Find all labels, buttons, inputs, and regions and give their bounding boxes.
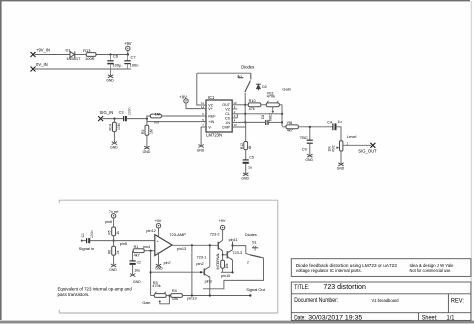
ground below C9 xyxy=(307,153,312,157)
svg-text:pin11: pin11 xyxy=(229,238,238,242)
svg-text:pin6: pin6 xyxy=(105,220,112,224)
svg-text:R5: R5 xyxy=(108,230,112,234)
capacitor C4 1u xyxy=(333,123,336,130)
svg-text:723-1: 723-1 xyxy=(197,256,207,260)
svg-text:IC1: IC1 xyxy=(208,95,215,100)
svg-text:SIG_IN: SIG_IN xyxy=(100,110,114,115)
divider title/doc xyxy=(291,293,471,295)
junction node +9V rail xyxy=(109,53,111,55)
svg-text:4k: 4k xyxy=(248,145,252,149)
wiper TBC2 xyxy=(272,107,274,112)
rail pin10 xyxy=(221,271,233,273)
svg-text:pass transistors.: pass transistors. xyxy=(58,292,90,297)
ground below C5 xyxy=(243,172,248,176)
node -IN wire xyxy=(244,121,246,123)
comment box xyxy=(291,259,471,277)
svg-text:+9V: +9V xyxy=(219,219,226,223)
pin OUT stub xyxy=(232,104,237,106)
node CL wire xyxy=(244,113,246,115)
svg-text:10k: 10k xyxy=(172,297,178,301)
svg-text:LM723N: LM723N xyxy=(206,133,222,138)
resistor R5 xyxy=(112,227,116,236)
svg-text:1/1: 1/1 xyxy=(447,315,456,322)
connector pin SIG_IN xyxy=(98,116,103,121)
svg-text:C7: C7 xyxy=(131,54,137,59)
svg-text:C8: C8 xyxy=(261,115,265,119)
svg-text:GND: GND xyxy=(106,79,114,83)
wire C1 to op-amp xyxy=(90,240,155,242)
wire C8 to node B xyxy=(269,121,283,123)
pin V+ stub xyxy=(201,108,206,110)
svg-text:2: 2 xyxy=(247,261,249,265)
svg-text:10M: 10M xyxy=(117,123,121,130)
svg-text:Signal Out: Signal Out xyxy=(246,287,266,292)
7v ref node xyxy=(111,214,115,218)
node Signal Out xyxy=(249,294,251,296)
ground below C6 xyxy=(110,69,112,74)
wiper loop R3 xyxy=(159,300,161,302)
ground below Level xyxy=(338,162,343,166)
svg-text:+9V: +9V xyxy=(179,94,187,99)
svg-text:Signal in: Signal in xyxy=(79,246,94,251)
wire switch to OUT node xyxy=(244,93,246,122)
node C9 tap xyxy=(309,126,311,128)
node OUT xyxy=(244,104,246,106)
svg-text:0V_IN: 0V_IN xyxy=(36,62,48,67)
svg-text:INTERNAL: INTERNAL xyxy=(216,253,220,270)
svg-text:pin13: pin13 xyxy=(177,247,186,251)
wire pot to gnd xyxy=(340,151,342,162)
window border top xyxy=(0,0,470,1)
box right edge xyxy=(277,200,279,313)
window bottom band xyxy=(0,321,474,324)
node +9V corner xyxy=(127,53,129,55)
svg-text:723 distortion: 723 distortion xyxy=(323,284,366,291)
svg-text:Date:: Date: xyxy=(294,315,306,322)
wire VC feed vertical xyxy=(197,73,201,105)
pin CL stub xyxy=(232,113,237,115)
svg-text:1M: 1M xyxy=(149,129,153,134)
svg-text:Not for commercial use.: Not for commercial use. xyxy=(410,268,452,273)
svg-text:100µ: 100µ xyxy=(112,63,122,68)
svg-text:13: 13 xyxy=(233,123,237,127)
pin V- stub xyxy=(201,126,206,128)
wire -IN row to C8 xyxy=(237,121,265,123)
svg-text:470k: 470k xyxy=(152,284,160,288)
pin -IN stub xyxy=(232,121,237,123)
node B vertical xyxy=(281,105,283,126)
svg-text:7v ref: 7v ref xyxy=(109,210,119,214)
wire 723-1 emitter down to rail xyxy=(209,277,211,295)
svg-text:Equivalent of 723 internal op-: Equivalent of 723 internal op-amp and xyxy=(58,287,133,292)
svg-text:D2: D2 xyxy=(262,85,267,89)
svg-text:+9V: +9V xyxy=(154,219,161,223)
op-amp gnd stub xyxy=(158,253,160,264)
box bottom edge xyxy=(59,312,278,314)
wire R3 to R4 xyxy=(166,295,171,297)
wire R1 to op-amp xyxy=(144,250,155,252)
wire 723-3 collector pin11 xyxy=(232,241,234,249)
svg-text:C3: C3 xyxy=(119,111,124,115)
svg-text:pin10: pin10 xyxy=(221,274,230,278)
capacitor C3 100n xyxy=(124,116,126,121)
potentiometer Level xyxy=(340,141,343,151)
svg-text:723-2: 723-2 xyxy=(210,233,220,237)
wire R9 to REF pin xyxy=(161,115,201,117)
divider REV xyxy=(447,294,449,313)
potentiometer R3 470k Gain xyxy=(154,294,166,298)
svg-text:R14: R14 xyxy=(108,124,112,130)
wire R12 to C5 xyxy=(245,150,247,160)
svg-text:Diode feedback distortion usin: Diode feedback distortion using LM723 or… xyxy=(296,263,398,268)
box top edge xyxy=(59,199,278,201)
op-amp 723-AMP xyxy=(155,235,172,256)
svg-text:S1: S1 xyxy=(252,240,257,244)
resistor R10 47k xyxy=(248,103,260,107)
svg-text:C4: C4 xyxy=(327,121,332,125)
wire C4 to level pot xyxy=(336,127,341,141)
svg-text:100R: 100R xyxy=(85,56,95,61)
svg-text:1M: 1M xyxy=(155,112,160,116)
svg-text:1k: 1k xyxy=(116,231,120,235)
capacitor C1 100n xyxy=(81,240,83,242)
switch S2 xyxy=(238,73,251,92)
power +9V at IC xyxy=(184,99,188,103)
svg-text:Level: Level xyxy=(347,134,357,139)
power +9V xyxy=(126,46,130,50)
svg-text:Sheet:: Sheet: xyxy=(422,315,438,322)
title block outer xyxy=(291,282,471,320)
svg-text:-IN: -IN xyxy=(225,121,230,125)
svg-text:1N5817: 1N5817 xyxy=(66,56,81,61)
wire C5 to gnd xyxy=(245,163,247,172)
node at R2 xyxy=(146,118,148,120)
capacitor C9 TBC xyxy=(309,127,311,140)
wire OUT to R10 xyxy=(237,104,248,106)
divider Sheet xyxy=(418,313,420,321)
connector pin 0V_IN xyxy=(31,67,36,72)
wire C3 to junction xyxy=(126,118,146,120)
pin CMP stub xyxy=(232,126,246,128)
svg-text:Gain: Gain xyxy=(142,301,150,305)
svg-text:REV:: REV: xyxy=(451,299,464,305)
svg-text:1u: 1u xyxy=(337,120,341,124)
svg-text:+9V: +9V xyxy=(124,41,132,46)
wire CL row xyxy=(236,114,238,118)
svg-text:C6: C6 xyxy=(113,54,119,59)
svg-text:470k: 470k xyxy=(267,95,275,99)
svg-text:Diodes: Diodes xyxy=(245,233,257,237)
svg-text:100n: 100n xyxy=(130,63,139,68)
wire D1 to R13 xyxy=(75,54,86,56)
wire +9V to V+ xyxy=(186,103,201,109)
svg-text:R4: R4 xyxy=(172,289,177,293)
svg-text:V1 breadboard: V1 breadboard xyxy=(372,298,400,303)
svg-text:+9V_IN: +9V_IN xyxy=(36,48,50,53)
svg-text:VZ: VZ xyxy=(225,107,230,111)
ground below R6 xyxy=(111,263,116,267)
svg-text:723-AMP: 723-AMP xyxy=(169,232,186,237)
svg-text:GND: GND xyxy=(110,145,118,149)
wire node B to R8 xyxy=(282,126,286,128)
box left corner stubs xyxy=(58,200,60,203)
capacitor C5 1u xyxy=(243,160,249,163)
wire 723-3 emitter xyxy=(232,260,234,273)
svg-text:47k: 47k xyxy=(249,107,255,111)
ground below op-amp xyxy=(156,263,161,267)
resistor R12 xyxy=(244,142,248,150)
svg-text:Idea & design J W Yale: Idea & design J W Yale xyxy=(410,263,455,268)
resistor R2 1M xyxy=(146,119,148,126)
svg-text:GND: GND xyxy=(305,158,313,162)
svg-text:CS: CS xyxy=(225,116,231,120)
svg-text:GND: GND xyxy=(155,266,163,270)
ground below V- xyxy=(200,127,202,144)
capacitor C7 100n xyxy=(124,55,130,70)
power +9V at op-amp xyxy=(156,224,160,228)
svg-text:R10: R10 xyxy=(249,99,256,103)
svg-text:R6: R6 xyxy=(108,250,112,254)
wire 723-2 emitter down xyxy=(222,251,224,260)
svg-text:30/03/2017 19:35: 30/03/2017 19:35 xyxy=(308,315,362,322)
svg-text:R13: R13 xyxy=(83,48,91,53)
rail pin13 bottom xyxy=(182,295,250,297)
svg-text:R2: R2 xyxy=(141,130,145,134)
svg-text:TITLE:: TITLE: xyxy=(294,284,309,291)
wire pin2 base rail xyxy=(151,271,205,273)
svg-text:pin12: pin12 xyxy=(146,229,155,233)
wire top rail to switch xyxy=(197,72,251,74)
ground below R14 xyxy=(112,141,117,145)
node input divider xyxy=(113,240,115,242)
wire -IN node down xyxy=(245,122,247,141)
node at R14 xyxy=(113,118,115,120)
svg-text:RV2: RV2 xyxy=(331,145,335,151)
connector pin SIG_OUT xyxy=(370,143,375,148)
wire SIG_IN to C3 xyxy=(102,118,123,120)
wire 723-1 collector up to output xyxy=(209,245,211,266)
svg-text:10k: 10k xyxy=(225,263,229,269)
wire R13 to +9V corner xyxy=(96,51,128,55)
wire R8 to C4 xyxy=(298,126,332,128)
resistor R6 xyxy=(113,241,115,247)
diode D2 xyxy=(256,84,261,90)
svg-text:pin7: pin7 xyxy=(164,261,171,265)
svg-text:R9: R9 xyxy=(154,120,159,124)
svg-text:voltage regulator IC internal: voltage regulator IC internal parts. xyxy=(296,268,362,273)
resistor R8 4k7 xyxy=(286,125,298,129)
svg-text:C5: C5 xyxy=(249,156,254,160)
page edge right xyxy=(471,1,472,321)
svg-text:GND: GND xyxy=(133,280,141,284)
svg-text:723-3: 723-3 xyxy=(232,251,242,255)
svg-text:pin3: pin3 xyxy=(205,280,212,284)
capacitor C2 10u xyxy=(132,251,134,261)
pin +IN stub xyxy=(201,121,206,123)
svg-text:C2: C2 xyxy=(137,260,141,264)
window border left xyxy=(0,0,2,320)
capacitor C8 xyxy=(266,120,268,125)
svg-text:R8: R8 xyxy=(287,121,292,125)
pin VC stub xyxy=(201,104,206,106)
pin VZ stub xyxy=(232,108,237,110)
svg-text:Document Number:: Document Number: xyxy=(294,298,338,304)
svg-text:GND: GND xyxy=(337,167,345,171)
svg-text:100n: 100n xyxy=(90,230,94,238)
resistor 10k internal xyxy=(221,260,225,268)
svg-text:pin4: pin4 xyxy=(143,245,150,249)
svg-text:GND: GND xyxy=(109,268,117,272)
svg-text:10u: 10u xyxy=(134,268,140,272)
capacitor C6 100u xyxy=(107,55,113,70)
svg-text:4k7: 4k7 xyxy=(134,253,140,257)
svg-text:D1: D1 xyxy=(66,48,72,53)
wire R11 to node B xyxy=(279,104,282,106)
svg-text:CMP: CMP xyxy=(222,125,231,129)
svg-text:1u: 1u xyxy=(248,166,252,170)
pin REF stub xyxy=(201,115,206,117)
svg-text:12: 12 xyxy=(201,105,205,109)
svg-text:Diodes: Diodes xyxy=(241,65,254,70)
svg-text:GND: GND xyxy=(143,150,151,154)
svg-text:R12: R12 xyxy=(240,143,244,149)
ground below R2 xyxy=(144,145,149,149)
resistor R13 100R xyxy=(86,53,96,57)
resistor R14 10M xyxy=(113,119,115,123)
pin CS stub xyxy=(232,117,237,119)
wire to 723-3 base xyxy=(223,254,228,256)
wire rail to R3 xyxy=(151,295,155,297)
trimmer R11 470k xyxy=(266,103,279,107)
svg-text:1k: 1k xyxy=(116,250,120,254)
power +9V at 723-2 xyxy=(222,230,224,241)
wire R10 to R11 xyxy=(261,104,267,106)
svg-text:Gain: Gain xyxy=(282,86,290,91)
svg-text:pin13: pin13 xyxy=(187,296,196,300)
wire S1 to output loop xyxy=(203,258,264,289)
svg-text:4k7: 4k7 xyxy=(287,129,293,133)
wire junction to +IN pin xyxy=(147,119,201,122)
svg-text:C9: C9 xyxy=(302,148,307,152)
svg-text:C1: C1 xyxy=(81,233,85,237)
svg-text:GND: GND xyxy=(197,148,205,152)
ground below C2 xyxy=(130,273,135,277)
svg-text:pin2: pin2 xyxy=(196,262,203,266)
svg-text:100n: 100n xyxy=(128,107,132,115)
svg-text:GND: GND xyxy=(241,177,249,181)
wire feedback vertical xyxy=(150,251,152,296)
divider doc/date xyxy=(291,312,471,314)
resistor R4 10k xyxy=(171,294,183,298)
wire 0V rail xyxy=(35,68,132,70)
diode D1 1N5817 xyxy=(70,51,75,57)
svg-text:pin5: pin5 xyxy=(120,242,127,246)
svg-text:TBC: TBC xyxy=(300,135,308,140)
connector pin +9V_IN xyxy=(31,52,36,57)
wire +9V_IN rail xyxy=(35,54,70,56)
wire op-amp output xyxy=(172,244,218,246)
resistor R9 1M xyxy=(147,116,151,119)
svg-text:+IN: +IN xyxy=(208,120,214,124)
svg-text:SIG_OUT: SIG_OUT xyxy=(358,148,377,153)
svg-text:V+: V+ xyxy=(208,107,213,111)
wire output down to rail xyxy=(191,245,193,295)
svg-text:R1: R1 xyxy=(134,245,139,249)
svg-text:REF: REF xyxy=(208,114,216,118)
